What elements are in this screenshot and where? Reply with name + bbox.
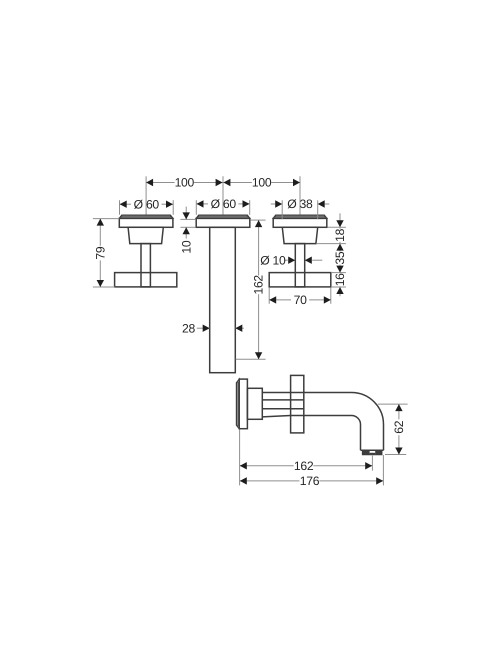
extension lines Ø38 bbox=[282, 200, 318, 219]
spout bend inner bbox=[352, 416, 361, 451]
right handle cross bar bbox=[269, 273, 331, 287]
spout rosette (center) bbox=[196, 215, 250, 227]
extension line right rosette center bbox=[299, 176, 301, 214]
extension lines 70 bbox=[269, 287, 331, 303]
spout projection column bbox=[210, 227, 236, 372]
dimension 176 line bbox=[240, 480, 384, 482]
dimension 100 (left span) label bbox=[175, 176, 195, 190]
dimension Ø10 label bbox=[260, 253, 286, 267]
svg-text:16: 16 bbox=[333, 273, 347, 286]
left handle cross bar bbox=[115, 273, 177, 287]
handle stem lines (side view) bbox=[262, 400, 304, 409]
dimension 28 label bbox=[182, 321, 195, 335]
dimension 28 line bbox=[197, 327, 244, 329]
dimension 62 arrows bbox=[395, 404, 402, 454]
dimension 28 arrows bbox=[203, 325, 243, 332]
dimension Ø60 left arrows bbox=[120, 201, 173, 208]
tick line at flange bottom bbox=[327, 226, 346, 228]
spout pipe bottom edge bbox=[262, 416, 351, 417]
dimension 79 line bbox=[99, 219, 101, 287]
svg-text:18: 18 bbox=[333, 228, 347, 241]
wall rosette (side view) bbox=[236, 379, 247, 429]
dimension 100 (right span) arrows bbox=[223, 179, 300, 186]
right handle rosette bbox=[273, 215, 327, 227]
svg-text:Ø 38: Ø 38 bbox=[287, 197, 313, 211]
svg-text:100: 100 bbox=[252, 176, 272, 190]
extension line 62 top bbox=[378, 403, 408, 405]
svg-text:176: 176 bbox=[300, 474, 320, 488]
left handle body bbox=[128, 227, 163, 243]
dimension 79 label bbox=[93, 246, 107, 259]
tick line at body bottom bbox=[316, 243, 346, 245]
extension lines Ø60 middle bbox=[196, 200, 249, 215]
dimension 162 bottom label bbox=[294, 459, 314, 473]
dimension 100 (right span) label bbox=[252, 176, 272, 190]
tick line at bar bottom bbox=[331, 286, 346, 288]
right handle stem bbox=[295, 244, 304, 287]
dimension 162 arrows bbox=[255, 220, 262, 359]
dimension Ø38 tails bbox=[271, 203, 330, 205]
dimension Ø38 label bbox=[287, 197, 313, 211]
left handle stem bbox=[141, 244, 150, 287]
dimension Ø38 arrows bbox=[275, 200, 325, 207]
dimension Ø60 middle arrows bbox=[197, 200, 250, 207]
svg-text:28: 28 bbox=[182, 321, 195, 335]
svg-text:Ø 60: Ø 60 bbox=[211, 197, 237, 211]
svg-text:Ø 60: Ø 60 bbox=[134, 197, 160, 211]
dimension 79 arrows bbox=[97, 219, 104, 287]
svg-text:100: 100 bbox=[175, 176, 195, 190]
extension line wall plane bbox=[239, 429, 241, 485]
svg-text:162: 162 bbox=[252, 275, 266, 295]
dimension 100 (left span) arrows bbox=[146, 179, 223, 186]
extension line spout center bbox=[222, 176, 224, 214]
dimension 16 label bbox=[333, 273, 347, 286]
dimension 100 (left span) line bbox=[146, 182, 223, 184]
extension line left rosette center bbox=[145, 176, 147, 214]
dimension 176 arrows bbox=[240, 477, 383, 484]
dimension Ø60 left label bbox=[134, 197, 160, 211]
dimension 70 arrows bbox=[269, 296, 331, 303]
dimension 35 label bbox=[333, 251, 347, 264]
dimension stack line bbox=[339, 213, 341, 296]
svg-text:70: 70 bbox=[294, 293, 307, 307]
extension line 162 top bbox=[250, 219, 265, 221]
dimension 162 bottom line bbox=[240, 465, 373, 467]
handle cross bar (side view) bbox=[291, 375, 304, 433]
dimension 10 arrows bbox=[183, 212, 190, 234]
spout pipe top edge bbox=[262, 392, 351, 394]
right handle body bbox=[282, 227, 317, 243]
extension line 79 bottom bbox=[93, 286, 115, 288]
svg-text:10: 10 bbox=[179, 240, 193, 253]
dimension 18 label bbox=[333, 228, 347, 241]
svg-text:162: 162 bbox=[294, 459, 314, 473]
spout hub bbox=[247, 388, 262, 419]
dimension 162 line bbox=[258, 220, 260, 359]
dimension 176 label bbox=[300, 474, 320, 488]
dimension Ø10 arrows bbox=[288, 257, 312, 264]
dimension Ø60 middle label bbox=[211, 197, 237, 211]
left handle rosette bbox=[119, 215, 173, 227]
dimension 70 label bbox=[294, 293, 307, 307]
tick line at bar top bbox=[331, 272, 346, 274]
extension line aerator center bbox=[371, 456, 373, 471]
dimension 10 line bbox=[185, 207, 187, 239]
dimension Ø60 middle line bbox=[196, 203, 249, 205]
extension line spout tip bbox=[382, 455, 384, 485]
svg-text:79: 79 bbox=[93, 246, 107, 259]
extension line 79 top bbox=[93, 218, 119, 220]
dimension 162 bottom arrows bbox=[240, 462, 372, 469]
dimension 100 (right span) line bbox=[223, 182, 300, 184]
extension line 62 bottom bbox=[385, 454, 406, 456]
dimension 70 line bbox=[269, 299, 331, 301]
spout end line bbox=[361, 449, 384, 451]
dimension 62 label bbox=[392, 420, 406, 433]
aerator (hatched) bbox=[362, 450, 382, 455]
dimension Ø10 line bbox=[284, 259, 322, 261]
spout bend outer bbox=[352, 393, 384, 451]
tick lines 10 bbox=[180, 219, 195, 227]
dimension 162 label bbox=[252, 275, 266, 295]
svg-text:62: 62 bbox=[392, 420, 406, 433]
dimension Ø60 left line bbox=[120, 203, 174, 205]
svg-text:Ø 10: Ø 10 bbox=[260, 253, 286, 267]
dimension 10 label bbox=[179, 240, 193, 253]
svg-text:35: 35 bbox=[333, 251, 347, 264]
dimension 62 line bbox=[398, 404, 400, 454]
extension lines Ø60 left bbox=[120, 200, 174, 215]
dimension stack arrows bbox=[336, 220, 343, 294]
extension line 162 bottom bbox=[236, 358, 266, 360]
